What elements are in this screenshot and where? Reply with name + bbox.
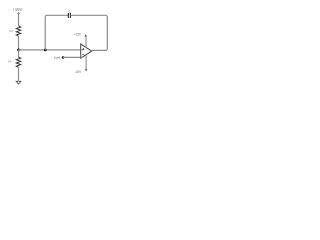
pin stub inverting input interior [81,49,83,51]
resistor R4 [16,57,20,67]
pin - sign [82,54,84,56]
wire V- stub [85,55,87,70]
wire feedback top right [71,15,108,50]
node Vref terminal dot [62,56,65,59]
wire R3 to node A [18,36,20,50]
resistor R3 [16,26,20,36]
svg-text:R4: R4 [8,60,12,64]
wire node A to R4 [18,50,20,57]
wire R4 to arrow [18,67,20,81]
svg-text:+15V: +15V [73,32,81,36]
wire node A to op-amp input [19,49,83,51]
op-amp U1 [81,44,92,58]
ground arrow (down) [15,81,22,85]
svg-text:Vref: Vref [54,56,61,60]
node A junction dot [17,49,20,52]
power arrow up (op-amp V+) [84,34,87,36]
power arrow (left rail up arrowhead) [17,12,20,14]
svg-text:+15V: +15V [12,7,22,12]
pin + sign [82,48,84,50]
wire Vref to op-amp + input [63,56,81,58]
wire V+ stub [85,36,87,48]
svg-text:-15V: -15V [74,70,82,74]
svg-text:R3: R3 [9,29,13,33]
capacitor C1 [67,13,69,18]
wire feedback left vertical [45,15,68,50]
power arrow down (op-amp V-) [85,69,88,71]
node B junction dot (feedback tap) [44,49,47,52]
wire +15V to R3 [18,13,20,26]
pin stub noninverting input interior [81,56,83,58]
